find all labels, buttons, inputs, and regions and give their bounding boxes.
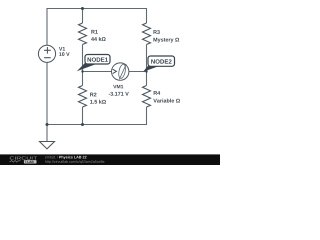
wire ground stub [46,125,48,142]
node NODE1 flag [77,55,110,72]
label R4 value Variable Ohm [153,99,180,103]
wire middle branch bottom stub [82,107,84,125]
label VM1 reading -3.171 V [109,92,129,96]
wire middle branch mid [82,45,84,86]
ground [40,142,55,149]
wire right branch top stub [146,8,148,23]
voltage source V1 [38,45,55,62]
junction dot bottom middle [81,123,84,126]
wire voltmeter left [83,71,112,73]
resistor R4 [143,86,151,107]
wire middle branch top stub [82,9,84,24]
wire left vertical lower [46,62,48,124]
wire voltmeter right [129,71,147,73]
label R1 [91,30,97,34]
junction dot node2 [145,70,147,72]
label R3 value Mystery Ohm [153,38,179,43]
wire right branch mid [146,45,148,86]
wire right branch bottom stub [146,107,148,125]
wire bottom horizontal [47,124,147,126]
node NODE2 flag [143,56,175,72]
footer text line 1 [45,156,58,159]
resistor R1 [79,23,87,44]
label R2 value 1.5 kOhm [90,100,106,104]
label V1 [59,47,65,51]
resistor R2 [79,86,87,107]
wire top horizontal [47,8,147,10]
label R2 [90,93,96,97]
junction dot node1 [81,70,83,72]
junction dot top middle [81,7,84,10]
junction dot bottom left [46,123,49,126]
footer bar [0,154,220,165]
label R1 value 44 kOhm [91,37,106,41]
voltmeter VM1 [112,63,129,80]
label R3 [153,30,159,34]
wire left vertical upper [46,8,48,45]
footer logo LAB badge [24,160,37,163]
footer text line 2 url [45,160,104,163]
resistor R3 [143,23,151,44]
label V1 value 10 V [59,52,69,56]
footer logo resistor squiggle [9,160,20,162]
label R4 [154,91,161,95]
footer logo CIRCUIT [10,156,37,159]
label VM1 [113,85,123,88]
